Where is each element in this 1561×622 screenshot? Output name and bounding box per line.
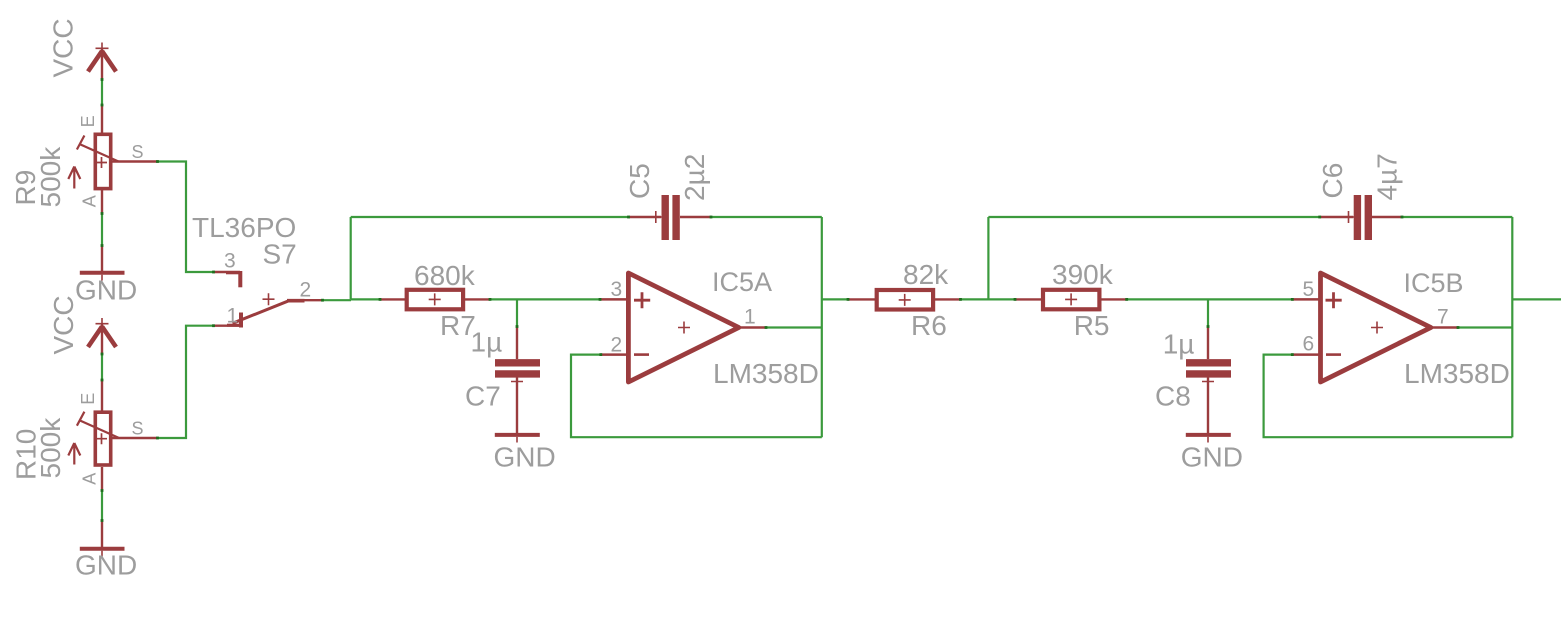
wire stage1 feedback right riser (821, 217, 823, 437)
ground GND (for R9) (75, 246, 137, 306)
wire stage1 input to R7 (351, 298, 380, 300)
svg-text:A: A (80, 473, 100, 485)
wire S7 pin2 to stage1 input node (323, 299, 352, 301)
svg-text:R5: R5 (1074, 310, 1110, 341)
svg-text:680k: 680k (414, 260, 476, 291)
svg-text:7: 7 (1437, 306, 1449, 329)
svg-text:GND: GND (75, 550, 137, 581)
wire IC5A pin2 loop (unity feedback) (571, 355, 822, 438)
svg-text:GND: GND (494, 441, 556, 472)
svg-text:2µ2: 2µ2 (679, 154, 710, 201)
wire R10.S to S7 pin1 (158, 326, 214, 438)
node stage2 input / feedback riser (987, 217, 989, 299)
capacitor C6 4µ7 (1317, 153, 1403, 240)
wire R9.S to S7 pin3 (158, 162, 214, 273)
svg-text:5: 5 (1303, 278, 1315, 301)
svg-text:GND: GND (75, 275, 137, 306)
wire R10.A to GND (101, 491, 103, 521)
svg-text:IC5A: IC5A (712, 267, 772, 297)
resistor R7 680k (380, 260, 490, 341)
resistor R6 82k (848, 259, 961, 341)
svg-text:R6: R6 (911, 310, 947, 341)
switch S7 TL36PO (192, 212, 323, 328)
svg-text:1µ: 1µ (1163, 329, 1195, 360)
svg-text:C7: C7 (465, 380, 501, 411)
svg-text:LM358D: LM358D (713, 358, 819, 389)
wire IC5B output to feedback riser (1459, 326, 1513, 328)
wire VCC to R10.E (101, 354, 103, 380)
potentiometer R10 500k (11, 380, 158, 491)
svg-text:390k: 390k (1052, 259, 1114, 290)
svg-text:LM358D: LM358D (1404, 358, 1510, 389)
svg-text:C5: C5 (624, 163, 655, 199)
svg-text:C8: C8 (1155, 380, 1191, 411)
wire R5 to IC5B pin5 (through C8 node) (1127, 298, 1293, 300)
wire IC5B pin6 loop (unity feedback) (1264, 355, 1513, 438)
junction endpoint dots (101, 78, 1460, 522)
svg-text:1µ: 1µ (471, 327, 503, 358)
svg-text:500k: 500k (35, 146, 66, 208)
wire stage2 feedback right riser (1511, 217, 1513, 437)
wire R7 to IC5A pin3 (through C7 node) (490, 298, 600, 300)
wire R9.A to GND (101, 214, 103, 246)
svg-text:1: 1 (744, 306, 756, 329)
supply VCC (top, for R9) (48, 18, 117, 79)
ground GND (for R10) (75, 521, 137, 581)
op-amp IC5B LM358D (1292, 268, 1510, 389)
svg-text:4µ7: 4µ7 (1372, 153, 1403, 200)
wire stage1 output link (822, 298, 848, 300)
svg-text:GND: GND (1181, 441, 1243, 472)
svg-text:A: A (80, 195, 100, 207)
wire stage1 feedback top (right half) (711, 216, 822, 218)
wire VCC to R9.E (101, 80, 103, 106)
op-amp IC5A LM358D (600, 267, 819, 389)
node C8 tap (1207, 299, 1209, 326)
svg-text:E: E (78, 115, 98, 127)
svg-text:3: 3 (224, 250, 236, 273)
svg-text:6: 6 (1303, 333, 1315, 356)
ground GND (for C8) (1181, 435, 1243, 472)
svg-text:2: 2 (611, 333, 623, 356)
node C7 tap (516, 299, 518, 326)
capacitor C5 2µ2 (624, 154, 711, 240)
svg-text:C6: C6 (1317, 163, 1348, 199)
svg-text:E: E (78, 393, 98, 405)
wire IC5A output to feedback riser (766, 326, 822, 328)
wire stage2 feedback top (right half) (1402, 216, 1512, 218)
svg-text:VCC: VCC (48, 18, 79, 77)
svg-text:1: 1 (227, 305, 239, 328)
svg-text:IC5B: IC5B (1404, 268, 1464, 298)
ground GND (for C7) (494, 435, 556, 472)
svg-text:82k: 82k (903, 259, 949, 290)
capacitor C8 1µ (1155, 327, 1231, 434)
svg-text:3: 3 (611, 278, 623, 301)
svg-text:2: 2 (300, 279, 312, 302)
supply VCC (lower, for R10) (48, 295, 116, 354)
wire stage2 output link to edge (1512, 298, 1561, 300)
svg-text:S: S (132, 419, 144, 439)
wire stage2 feedback top (left half) (988, 216, 1319, 218)
svg-text:500k: 500k (35, 417, 66, 479)
resistor R5 390k (1015, 259, 1127, 341)
wire R6 to R5 (through stage2 feedback node) (961, 298, 1016, 300)
svg-text:VCC: VCC (48, 295, 79, 354)
capacitor C7 1µ (465, 327, 540, 434)
potentiometer R9 500k (10, 105, 158, 214)
node stage1 input / feedback riser (350, 217, 352, 299)
svg-text:S: S (132, 142, 144, 162)
svg-text:S7: S7 (263, 239, 297, 270)
wire stage1 feedback top (left half) (351, 216, 629, 218)
